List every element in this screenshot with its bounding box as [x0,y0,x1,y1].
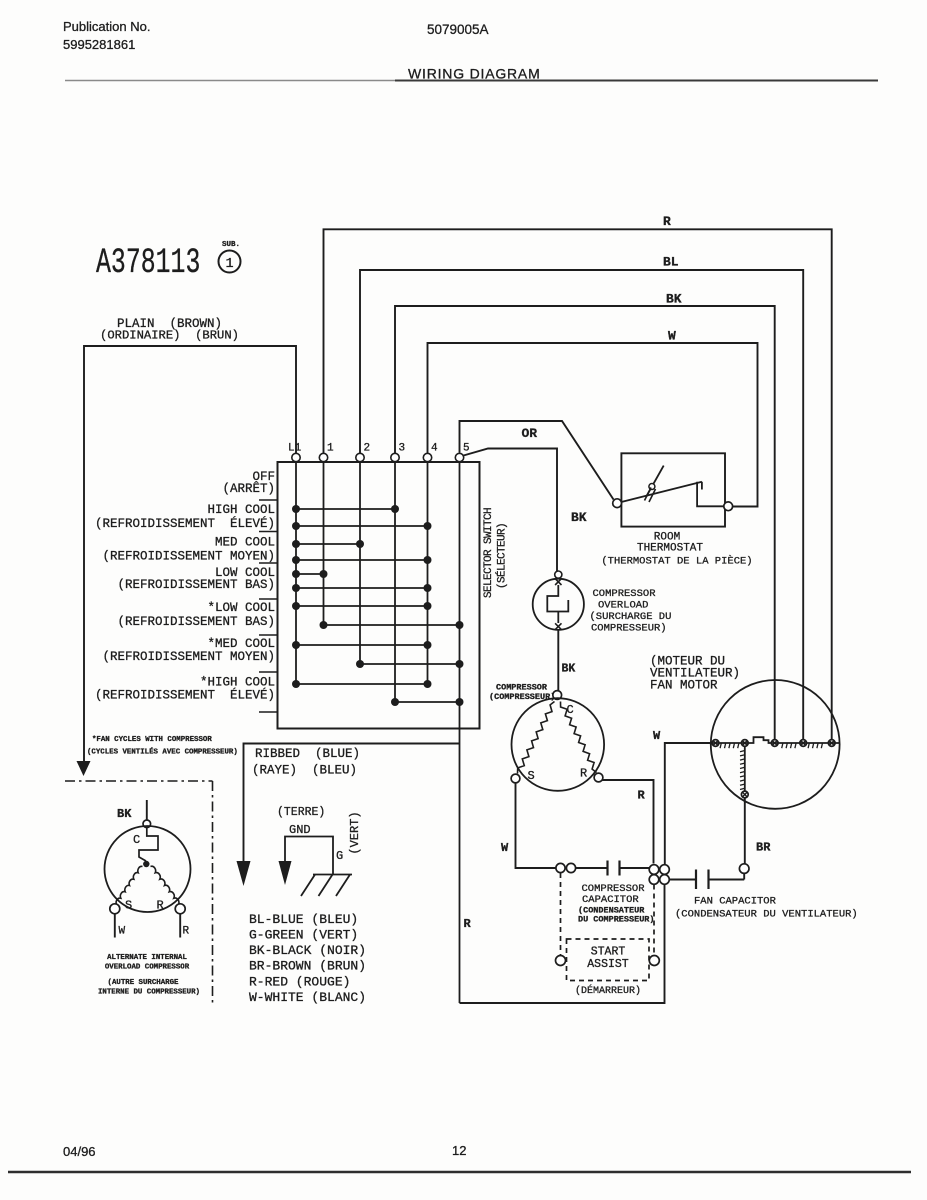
svg-text:SUB.: SUB. [222,241,240,249]
alternate compressor circle [105,826,191,912]
svg-text:(REFROIDISSEMENT ÉLEVÉ): (REFROIDISSEMENT ÉLEVÉ) [95,516,275,531]
compressor terminal C [553,691,562,700]
switch row high cool contact b [296,525,428,527]
svg-text:OVERLOAD COMPRESSOR: OVERLOAD COMPRESSOR [105,964,190,972]
alternate compressor lead [146,800,148,820]
svg-text:R-RED (ROUGE): R-RED (ROUGE) [249,975,350,990]
wire W (terminal 4 to room thermostat) [428,343,758,507]
ground bracket [285,837,333,875]
svg-text:S: S [528,769,535,783]
svg-text:G-GREEN (VERT): G-GREEN (VERT) [249,928,358,943]
fan motor winding [711,737,840,743]
svg-text:Publication No.: Publication No. [63,19,150,34]
wire R (terminal 1 to fan motor) [324,229,832,740]
svg-text:SELECTOR SWITCH: SELECTOR SWITCH [483,508,495,598]
svg-text:HIGH COOL: HIGH COOL [207,503,275,517]
fan capacitor [670,879,696,881]
terminal L1 column wire [295,462,297,684]
svg-text:5995281861: 5995281861 [63,37,135,52]
alternate detail dash-dot border [65,780,213,782]
svg-text:ASSIST: ASSIST [587,958,629,971]
capacitor junction terminals [556,863,565,872]
switch row star med cool contact a [296,644,428,646]
start assist dashed lead left [560,873,562,956]
svg-text:R: R [157,899,164,913]
svg-text:START: START [591,946,626,959]
svg-text:1: 1 [327,443,334,455]
svg-text:CAPACITOR: CAPACITOR [582,894,639,906]
wire BK (terminal 5 to compressor overload) [464,449,558,572]
wire R return (switch 5 to cluster) [460,885,665,1003]
svg-text:04/96: 04/96 [63,1144,96,1159]
fan capacitor terminal BR [739,864,749,874]
ribbed blue bracket [244,744,460,862]
terminal 4 column wire [427,462,429,684]
svg-text:BK-BLACK (NOIR): BK-BLACK (NOIR) [249,943,366,958]
svg-text:(DÉMARREUR): (DÉMARREUR) [575,983,641,997]
svg-text:INTERNE DU COMPRESSEUR): INTERNE DU COMPRESSEUR) [98,989,200,997]
svg-text:G: G [336,849,343,863]
svg-text:WIRING DIAGRAM: WIRING DIAGRAM [408,66,541,82]
svg-text:(SÉLECTEUR): (SÉLECTEUR) [495,523,509,589]
room thermostat bimetal hatches [645,488,652,501]
arrow plain wire to ground [77,761,91,776]
svg-text:(THERMOSTAT DE LA PIÈCE): (THERMOSTAT DE LA PIÈCE) [601,554,752,568]
svg-text:BR: BR [756,841,771,855]
switch row star med cool contact b [360,663,460,665]
svg-text:BK: BK [562,663,576,676]
overload wire crimp top [555,579,561,585]
svg-text:(ARRÊT): (ARRÊT) [222,481,275,496]
svg-text:*MED COOL: *MED COOL [207,637,275,651]
start assist left terminal [556,956,566,966]
svg-text:(CYCLES VENTILÉS AVEC COMPRESS: (CYCLES VENTILÉS AVEC COMPRESSEUR) [87,748,238,757]
alternate compressor lead R [179,914,181,938]
svg-text:(REFROIDISSEMENT BAS): (REFROIDISSEMENT BAS) [117,578,275,592]
terminal 1 column wire [323,462,325,625]
svg-text:COMPRESSOR: COMPRESSOR [593,588,657,600]
svg-text:*HIGH COOL: *HIGH COOL [200,676,275,690]
arrow ribbed wire to ground [237,861,251,886]
wire BL (terminal 2 to fan motor) [360,270,803,740]
svg-text:(REFROIDISSEMENT MOYEN): (REFROIDISSEMENT MOYEN) [102,650,275,664]
svg-text:DU COMPRESSEUR): DU COMPRESSEUR) [578,915,655,925]
room thermostat fixed contact post [697,482,723,507]
svg-text:BL: BL [663,255,679,270]
svg-text:BK: BK [117,807,132,821]
svg-text:3: 3 [399,443,406,455]
label selector switch (vertical) [483,508,495,598]
svg-text:A378113: A378113 [96,244,200,283]
alternate compressor terminal S [110,904,120,914]
title rule [65,80,395,82]
svg-text:W: W [653,729,661,743]
start assist dashed lead right [653,885,655,956]
wire R compressor R terminal to cluster [603,780,654,864]
alternate compressor lead W [114,914,116,938]
svg-text:MED COOL: MED COOL [215,536,275,550]
svg-text:R: R [663,214,671,229]
compressor overload circle [533,579,584,630]
svg-text:W: W [668,329,676,344]
alternate compressor run winding [151,866,179,904]
svg-text:5: 5 [463,443,470,455]
arrow gnd to ground [279,861,292,885]
svg-text:*FAN CYCLES WITH COMPRESSOR: *FAN CYCLES WITH COMPRESSOR [92,736,212,744]
svg-text:C: C [133,833,140,847]
room thermostat box [621,453,725,526]
switch row med cool contact b [296,559,428,561]
svg-text:R: R [464,917,472,931]
compressor start winding [518,702,555,774]
fan motor auxiliary winding [744,747,746,792]
terminal 5 column wire (R wire continues to bottom) [459,462,461,1003]
wire W compressor S to capacitor [516,783,557,868]
switch row low cool contact a [296,573,324,575]
svg-text:1: 1 [225,257,233,272]
start assist dashed box [567,939,650,981]
svg-text:(TERRE): (TERRE) [277,806,325,819]
svg-text:BL-BLUE (BLEU): BL-BLUE (BLEU) [249,912,358,927]
svg-text:FAN MOTOR: FAN MOTOR [650,679,718,693]
compressor overload element [547,585,568,612]
switch row star high cool contact a [296,683,428,685]
compressor run winding [561,702,597,773]
svg-text:2: 2 [364,443,371,455]
svg-text:COMPRESSEUR): COMPRESSEUR) [591,623,667,635]
compressor overload top terminal [555,571,562,578]
terminal 2 column wire [359,462,361,664]
alternate compressor start winding [116,866,142,904]
svg-text:RIBBED (BLUE): RIBBED (BLUE) [255,747,360,761]
selector switch box [278,462,480,729]
switch row med cool contact a [296,543,360,545]
svg-text:R: R [183,926,190,938]
start assist right terminal [649,956,659,966]
svg-text:5079005A: 5079005A [427,22,489,37]
fan motor winding bottom tap [741,791,748,798]
wire W fan motor to cluster [665,743,711,865]
label vert (vertical) [348,811,362,854]
svg-text:(REFROIDISSEMENT BAS): (REFROIDISSEMENT BAS) [117,615,275,629]
room thermostat right terminal [724,502,733,511]
svg-text:BK: BK [571,510,587,525]
alternate compressor terminal C [143,820,151,828]
switch row star low cool contact a [296,605,428,607]
svg-text:OR: OR [522,426,538,441]
footer rule [8,1171,911,1173]
svg-text:FAN CAPACITOR: FAN CAPACITOR [694,896,777,908]
svg-text:THERMOSTAT: THERMOSTAT [637,543,703,555]
svg-text:W-WHITE (BLANC): W-WHITE (BLANC) [249,990,366,1005]
svg-text:4: 4 [431,443,438,455]
svg-text:(REFROIDISSEMENT MOYEN): (REFROIDISSEMENT MOYEN) [102,550,275,564]
wire overload to compressor [557,630,559,691]
compressor terminal R [594,773,603,782]
wire OR (terminal 5 to room thermostat) [460,421,614,500]
svg-text:ALTERNATE INTERNAL: ALTERNATE INTERNAL [107,954,187,962]
room thermostat switch blade [622,482,702,502]
svg-text:W: W [119,926,126,938]
svg-text:R: R [580,767,587,781]
terminal 3 column wire [394,462,396,702]
wire plain brown L1 feed [84,346,296,761]
svg-text:BR-BROWN (BRUN): BR-BROWN (BRUN) [249,959,366,974]
compressor capacitor [576,867,607,869]
svg-text:OVERLOAD: OVERLOAD [598,600,648,612]
svg-text:*LOW COOL: *LOW COOL [207,601,275,615]
svg-text:(REFROIDISSEMENT ÉLEVÉ): (REFROIDISSEMENT ÉLEVÉ) [95,688,275,703]
svg-text:(RAYE) (BLEU): (RAYE) (BLEU) [252,764,357,778]
room thermostat left terminal [613,499,622,508]
junction cluster terminals [649,865,659,875]
wire BR fan motor to capacitor [744,798,746,864]
room thermostat pivot contact [646,466,664,497]
fan motor circle [711,680,840,809]
overload wire crimp bottom [555,623,561,629]
svg-text:(AUTRE SURCHARGE: (AUTRE SURCHARGE [108,979,180,987]
fan motor winding taps [712,740,719,747]
svg-text:GND: GND [289,823,311,837]
switch row star high cool contact b [395,701,460,703]
switch row high cool contact a [296,508,395,510]
wire BK (terminal 3 to fan motor) [395,306,775,740]
svg-text:(ORDINAIRE) (BRUN): (ORDINAIRE) (BRUN) [100,329,239,343]
svg-text:(SURCHARGE DU: (SURCHARGE DU [590,611,672,623]
svg-text:(CONDENSATEUR DU VENTILATEUR): (CONDENSATEUR DU VENTILATEUR) [675,909,858,921]
svg-text:(VERT): (VERT) [348,811,362,854]
svg-text:BK: BK [666,292,682,307]
earth ground symbol [313,874,352,876]
compressor motor circle [512,698,605,791]
svg-text:S: S [125,899,132,913]
switch row low cool contact b [296,587,428,589]
alternate internal overload element [139,828,158,861]
compressor terminal S [511,774,520,783]
svg-text:R: R [638,789,646,803]
switch row star low cool contact b [324,624,460,626]
alternate compressor junction dot [143,861,149,867]
svg-text:12: 12 [452,1143,466,1158]
alternate compressor terminal R [175,904,185,914]
svg-text:W: W [501,841,509,855]
